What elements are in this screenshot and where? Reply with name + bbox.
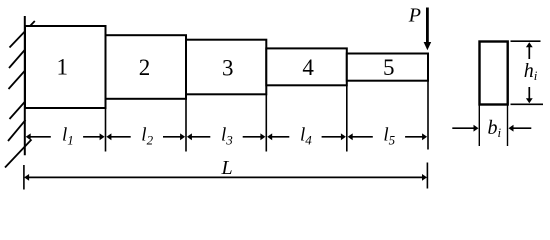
b_i right arrow xyxy=(509,125,532,132)
extension line x=266.3 xyxy=(265,94,267,151)
beam segment 2 xyxy=(106,35,187,99)
dimension L line xyxy=(24,174,427,181)
dimension l3 arrows xyxy=(187,133,266,140)
svg-text:1: 1 xyxy=(56,55,68,80)
extension line x=105.5 xyxy=(105,108,107,152)
extension line x=346.8 xyxy=(346,85,348,151)
svg-text:L: L xyxy=(220,157,232,179)
L extension tick right xyxy=(426,163,428,189)
b_i extension line left xyxy=(478,105,480,147)
beam segment 4 xyxy=(266,48,347,85)
beam segment 3 xyxy=(186,40,266,95)
dimension l4 arrows xyxy=(267,133,346,140)
load P arrow xyxy=(424,8,432,51)
cross-section rectangle xyxy=(480,42,508,105)
h_i down arrow xyxy=(526,87,533,103)
dimension l1 arrows xyxy=(26,133,105,140)
h_i bottom tick xyxy=(511,103,544,105)
wall hatch 6 xyxy=(5,140,32,168)
beam segment 5 xyxy=(347,54,428,81)
wall line xyxy=(24,16,26,155)
extension line x=428 xyxy=(427,81,429,150)
beam segment 1 xyxy=(25,26,106,108)
wall hatch 2 xyxy=(9,49,26,69)
wall hatch 1 xyxy=(10,21,35,48)
svg-text:P: P xyxy=(408,5,421,27)
svg-text:4: 4 xyxy=(302,55,314,80)
L extension tick left xyxy=(23,165,25,190)
extension line x=186 xyxy=(185,99,187,152)
wall hatch 3 xyxy=(9,70,26,89)
wall hatch 5 xyxy=(8,120,26,141)
dimension l2 arrows xyxy=(106,133,185,140)
dimension l5 arrows xyxy=(348,133,427,140)
h_i up arrow xyxy=(526,42,533,59)
h_i top tick xyxy=(511,40,541,42)
b_i extension line right xyxy=(507,105,509,147)
svg-text:5: 5 xyxy=(383,55,395,80)
b_i left arrow xyxy=(452,125,478,132)
svg-text:3: 3 xyxy=(222,55,234,80)
svg-text:2: 2 xyxy=(139,55,151,80)
wall hatch 4 xyxy=(10,92,35,120)
